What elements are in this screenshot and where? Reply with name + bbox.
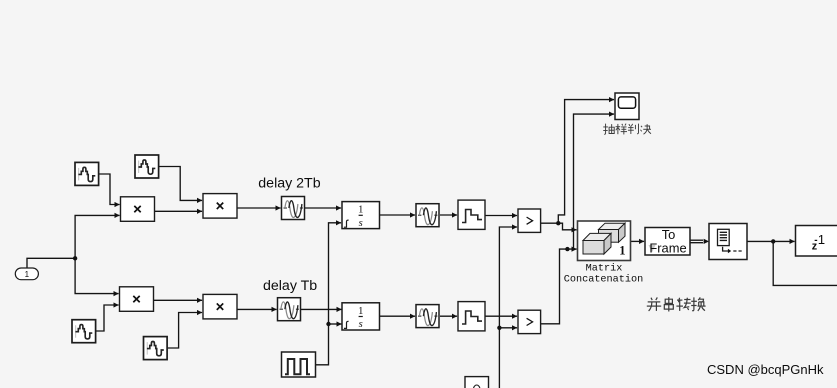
svg-text:s: s xyxy=(359,218,363,229)
svg-text:Concatenation: Concatenation xyxy=(564,274,643,286)
threshold constant block (cut at bottom edge) xyxy=(465,377,489,388)
wire: product P2 to delay D1 xyxy=(237,207,281,209)
Matrix Concatenation block xyxy=(578,221,631,261)
svg-text:1: 1 xyxy=(619,244,625,258)
transport delay T3 xyxy=(416,204,439,227)
svg-text:1: 1 xyxy=(358,205,363,216)
svg-text:Matrix: Matrix xyxy=(586,263,623,275)
char 决 xyxy=(640,124,651,134)
wire: sine S1 to product P1 input 1 xyxy=(99,174,120,205)
integrator I2 xyxy=(342,303,380,330)
wire: tap 1 up to scope input 1 xyxy=(558,100,614,224)
product P3 xyxy=(120,287,154,312)
wire: feedback down and off right edge xyxy=(773,241,837,285)
Scope block xyxy=(615,93,639,120)
wire: inport stem to split junction xyxy=(27,258,75,268)
label: 抽样判决 (scope label) xyxy=(603,124,651,135)
front cuboid xyxy=(583,233,611,240)
wire: integrator I1 to delay icon T3 xyxy=(380,214,416,216)
wire: pulse generator up to integrator I1 input 2 xyxy=(316,223,342,365)
svg-text:1: 1 xyxy=(25,270,30,279)
wire: sine S2 to product P2 input 1 xyxy=(159,167,203,201)
wire: product P1 to product P2 input 2 xyxy=(155,210,203,212)
wire: relational R2 to Matrix Concatenation input 2 xyxy=(541,249,577,324)
node: scope tap 2 xyxy=(565,247,569,251)
wire: junction down to product P3 input 1 xyxy=(75,258,119,293)
Unit Delay z^-1 block (cut at right edge) xyxy=(796,226,837,257)
wire: T4 to staircase K2 xyxy=(440,315,457,317)
wire: To Frame to Buffer (frame double line) xyxy=(690,239,703,241)
wire: T3 to staircase K1 xyxy=(440,214,457,216)
wire: Matrix Concatenation to To Frame xyxy=(631,240,645,242)
wire: junction up to product P1 input 2 xyxy=(75,215,120,258)
product P1 xyxy=(121,197,155,222)
wire: K2 to relational R2 input 1 xyxy=(485,315,517,317)
char 抽 xyxy=(603,124,614,135)
node: scope tap 1 xyxy=(556,221,560,225)
pulse generator xyxy=(282,352,316,377)
wire: pulse branch to integrator I2 input 2 xyxy=(329,323,342,325)
node: feedback tap xyxy=(771,239,775,243)
char 串 xyxy=(664,297,673,311)
svg-text:1: 1 xyxy=(358,306,363,317)
wire: sine S4 to product P4 input 2 xyxy=(167,313,202,349)
wire: delay D2 to integrator I2 input 1 xyxy=(301,308,342,310)
wire: delay D1 to integrator I1 input 1 xyxy=(305,207,342,209)
relational operator R2 xyxy=(518,310,541,333)
wire: K1 to relational R1 input 1 xyxy=(485,215,517,217)
wire: Buffer to Unit Delay xyxy=(747,240,795,242)
node: threshold branch junction xyxy=(497,326,501,330)
To Frame block xyxy=(645,227,690,255)
svg-text:1: 1 xyxy=(818,232,825,247)
relational operator R1 xyxy=(518,209,541,232)
Buffer block xyxy=(709,224,747,260)
svg-text:delay 2Tb: delay 2Tb xyxy=(258,176,320,192)
sine source S3 xyxy=(72,320,96,343)
sine source S1 xyxy=(75,162,99,185)
integrator I1 xyxy=(342,202,380,229)
char 转 xyxy=(676,298,690,311)
node: pulse branch junction xyxy=(326,322,330,326)
char 换 xyxy=(691,297,705,311)
wire: threshold riser to relational R1 input 2 xyxy=(499,227,517,388)
sine source S2 xyxy=(135,155,159,178)
wire: product P4 to delay D2 xyxy=(237,308,277,310)
char 并 xyxy=(647,297,661,311)
char 样 xyxy=(616,124,627,135)
wire: tap 2 up to scope input 2 xyxy=(574,114,615,249)
char 判 xyxy=(628,124,639,134)
wire: integrator I2 to delay icon T4 xyxy=(380,315,416,317)
inport oval 1 xyxy=(15,268,38,280)
svg-text:s: s xyxy=(359,319,363,330)
node: inport split junction xyxy=(73,256,77,260)
svg-text:Frame: Frame xyxy=(649,240,686,255)
transport delay D1 xyxy=(282,197,305,220)
back cuboid xyxy=(599,223,626,229)
wire: relational R1 to Matrix Concatenation input 1 xyxy=(541,223,577,230)
wire: sine S3 to product P3 input 2 xyxy=(96,305,119,331)
wire: product P3 to product P4 input 1 xyxy=(154,299,202,301)
sine source S4 xyxy=(144,337,168,360)
staircase block K1 xyxy=(458,200,485,229)
product P4 xyxy=(203,294,237,319)
wire: threshold branch to relational R2 input 2 xyxy=(499,327,517,329)
transport delay D2 xyxy=(278,298,301,321)
transport delay T4 xyxy=(416,305,439,328)
product P2 xyxy=(203,194,237,219)
svg-text:CSDN @bcqPGnHk: CSDN @bcqPGnHk xyxy=(707,362,824,377)
label: 并串转换 (serial conversion label) xyxy=(647,297,706,311)
svg-text:delay Tb: delay Tb xyxy=(263,278,317,294)
staircase block K2 xyxy=(458,302,485,331)
